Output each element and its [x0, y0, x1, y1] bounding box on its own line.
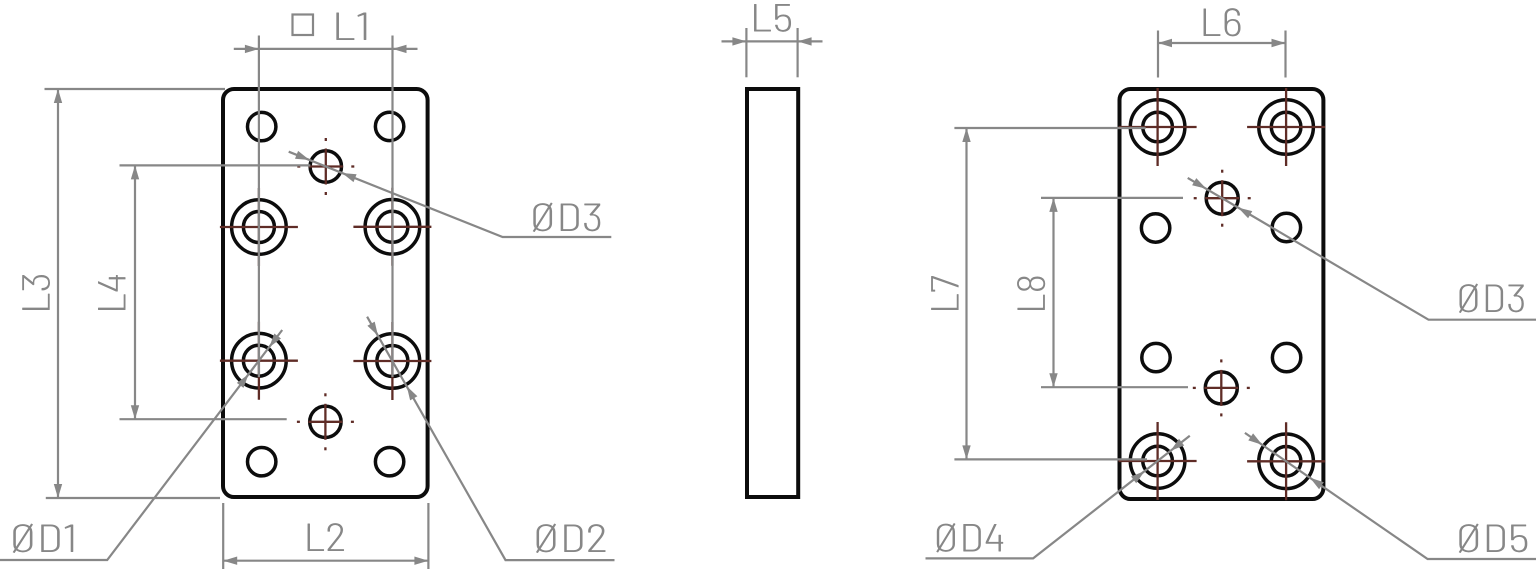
dimension L6 extension lines — [1157, 31, 1159, 78]
back counterbore top-left outer — [1130, 100, 1185, 155]
dimension L1 extension lines — [258, 36, 260, 378]
label ØD2 — [536, 524, 605, 553]
back view plate outline — [1120, 89, 1324, 499]
center mark counterbore lower-right — [353, 360, 431, 362]
dimension L1 line with outside arrows — [234, 48, 259, 50]
front small hole lower-center — [310, 406, 341, 437]
center mark back counterbore top-left — [1119, 126, 1197, 128]
dimension L7 line with arrows — [965, 128, 967, 459]
back plain hole lower-left — [1142, 343, 1170, 371]
front counterbore upper-right outer — [365, 200, 420, 255]
center mark back counterbore bottom-left — [1119, 460, 1197, 462]
back counterbore bottom-left inner — [1143, 446, 1173, 476]
back counterbore top-right outer — [1259, 100, 1314, 155]
label ØD3 back — [1459, 284, 1524, 313]
back small hole upper-center — [1206, 182, 1238, 214]
front small hole upper-center — [310, 151, 341, 182]
dimension L3 extension lines — [45, 88, 226, 90]
back counterbore top-left inner — [1143, 112, 1173, 142]
dimension L2 extension lines — [222, 503, 224, 569]
leader ØD4 — [926, 436, 1190, 559]
front counterbore lower-right outer — [365, 334, 420, 389]
dimension L5 line with outside arrows — [722, 40, 747, 42]
leader ØD3 back view — [1188, 178, 1536, 320]
label L8 — [1017, 276, 1045, 310]
center mark counterbore upper-right — [353, 226, 431, 228]
back counterbore top-right inner — [1271, 112, 1301, 142]
center mark counterbore lower-left — [220, 360, 298, 362]
front counterbore upper-left inner — [243, 212, 274, 243]
label L7 — [931, 276, 959, 310]
center mark back small hole lower — [1204, 387, 1238, 389]
label L2 — [308, 523, 344, 551]
center mark lower-center hole — [308, 421, 342, 423]
dimension L2 line with arrows — [223, 560, 428, 562]
label ØD3 front — [533, 203, 601, 232]
front counterbore upper-left outer — [232, 200, 287, 255]
label L3 — [22, 275, 50, 310]
square symbol for L1 — [293, 15, 314, 36]
dimension L4 extension lines — [120, 164, 311, 166]
dimension L3 line with arrows — [57, 89, 59, 498]
leader ØD1 — [0, 330, 282, 560]
front counterbore upper-right inner — [377, 211, 408, 242]
side view plate outline — [747, 89, 798, 497]
front counterbore lower-left inner — [243, 345, 274, 376]
dimension L7 extension lines — [954, 127, 1145, 129]
dimension L8 line with arrows — [1052, 198, 1054, 387]
leader ØD3 front view — [289, 152, 612, 237]
front plain hole top-left — [248, 112, 276, 140]
back small hole lower-center — [1205, 372, 1237, 404]
front counterbore lower-right inner — [377, 346, 408, 377]
dimension L4 line with arrows — [134, 165, 136, 419]
dimension L5 extension lines — [745, 28, 747, 77]
label L4 — [98, 275, 126, 310]
label ØD1 — [13, 524, 73, 553]
back plain hole upper-right — [1272, 213, 1300, 241]
back plain hole lower-right — [1272, 343, 1300, 371]
front plain hole top-right — [375, 112, 403, 140]
dimension L6 line with arrows — [1158, 42, 1286, 44]
front view plate outline — [223, 89, 428, 497]
leader ØD2 — [367, 317, 614, 560]
front plain hole bottom-left — [248, 448, 276, 476]
back counterbore bottom-left outer — [1130, 434, 1185, 489]
label L1 — [336, 12, 366, 40]
back counterbore bottom-right inner — [1271, 447, 1301, 477]
center mark upper-center hole — [309, 165, 343, 167]
label ØD5 — [1459, 524, 1528, 553]
front counterbore lower-left outer — [232, 333, 287, 388]
dimension L8 extension lines — [1041, 197, 1183, 199]
label L6 — [1204, 8, 1241, 36]
label L5 — [754, 4, 791, 32]
back plain hole upper-left — [1141, 214, 1169, 242]
center mark back counterbore top-right — [1247, 126, 1325, 128]
leader ØD5 — [1245, 433, 1536, 559]
back counterbore bottom-right outer — [1259, 434, 1314, 489]
label ØD4 — [936, 523, 1003, 552]
center mark back small hole upper — [1205, 197, 1239, 199]
center mark counterbore upper-left — [220, 226, 298, 228]
front plain hole bottom-right — [375, 448, 403, 476]
center mark back counterbore bottom-right — [1247, 460, 1325, 462]
